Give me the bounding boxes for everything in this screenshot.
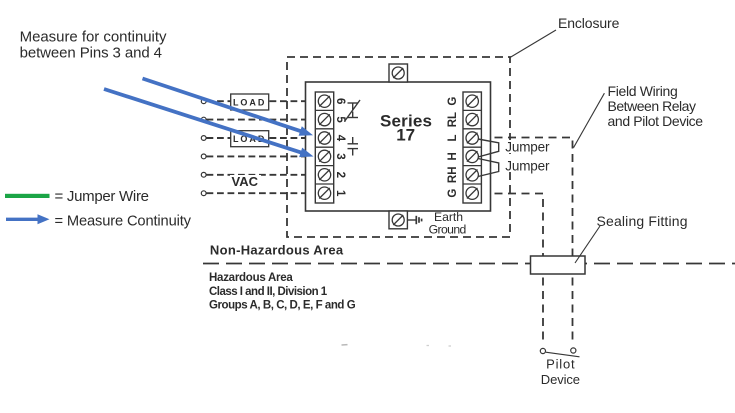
svg-text:Ground: Ground xyxy=(429,222,467,236)
contact K1 (NC, between pins 5 and 6) xyxy=(345,100,360,121)
pin number label 1 xyxy=(334,190,346,197)
svg-text:between Pins 3 and 4: between Pins 3 and 4 xyxy=(20,45,162,62)
svg-text:and Pilot Device: and Pilot Device xyxy=(608,113,704,129)
legend measure-continuity arrow xyxy=(6,214,50,224)
svg-text:Jumper: Jumper xyxy=(505,140,550,155)
jumper J1 (L to H) xyxy=(478,139,499,157)
svg-text:Non-Hazardous Area: Non-Hazardous Area xyxy=(210,243,344,258)
label: Pilot Device xyxy=(541,357,580,387)
legend label: = Measure Continuity xyxy=(55,214,192,230)
wire: pin 6 row xyxy=(207,100,319,102)
measure arrow A2 (to pin 3) xyxy=(104,89,314,157)
jumper J2 (H to RH) xyxy=(478,159,499,177)
svg-text:L: L xyxy=(447,134,459,141)
terminal label G (bottom) xyxy=(447,189,459,198)
svg-text:2: 2 xyxy=(334,172,346,178)
legend jumper wire swatch xyxy=(5,194,50,198)
pin number label 3 xyxy=(334,153,346,159)
svg-text:5: 5 xyxy=(334,116,346,123)
svg-text:Groups A, B, C, D, E, F and G: Groups A, B, C, D, E, F and G xyxy=(209,300,356,312)
svg-text:= Jumper Wire: = Jumper Wire xyxy=(55,188,150,205)
label: Series 17 xyxy=(380,112,432,145)
svg-text:Field Wiring: Field Wiring xyxy=(608,83,678,99)
svg-text:Device: Device xyxy=(541,372,580,387)
svg-text:RL: RL xyxy=(447,112,459,127)
enclosure xyxy=(287,57,510,237)
relay U1 body xyxy=(306,82,491,211)
label: Hazardous Area / Class / Groups xyxy=(209,272,356,312)
wire: pin 1 row xyxy=(207,192,319,194)
load box L2 xyxy=(231,131,269,147)
terminal label L xyxy=(447,134,459,141)
svg-text:4: 4 xyxy=(334,135,346,142)
label: Jumper (2) xyxy=(503,159,552,174)
svg-text:LOAD: LOAD xyxy=(233,98,267,108)
wire: from terminal G (bottom) to pilot device (left vertical) xyxy=(481,194,543,346)
svg-text:H: H xyxy=(447,152,459,160)
terminal label H xyxy=(447,152,459,160)
label: Jumper (1) xyxy=(503,140,550,155)
svg-text:17: 17 xyxy=(396,125,415,144)
terminal strip TB2 (right, G RL L H RH G) xyxy=(463,92,481,203)
pin number label 6 xyxy=(334,98,346,104)
svg-text:Sealing Fitting: Sealing Fitting xyxy=(597,213,688,229)
svg-text:6: 6 xyxy=(334,98,346,104)
svg-text:Enclosure: Enclosure xyxy=(558,15,620,31)
terminal label RL xyxy=(447,112,459,127)
svg-text:RH: RH xyxy=(447,166,459,183)
annotation: measure instruction xyxy=(20,28,167,61)
wire: pin 4 row xyxy=(207,137,319,139)
measure arrow A1 (to pin 4) xyxy=(143,79,314,136)
svg-text:G: G xyxy=(447,189,459,198)
sealing fitting xyxy=(531,256,586,274)
svg-text:= Measure Continuity: = Measure Continuity xyxy=(55,214,192,230)
pin number label 4 xyxy=(334,135,346,142)
label: VAC xyxy=(230,174,261,189)
svg-text:G: G xyxy=(447,97,459,106)
wire: pin 3 row xyxy=(207,155,319,157)
pilot device switch xyxy=(540,348,579,357)
label: Enclosure xyxy=(510,15,620,58)
label: Sealing Fitting xyxy=(575,213,688,263)
label: Non-Hazardous Area xyxy=(210,243,344,258)
svg-text:Jumper: Jumper xyxy=(505,159,550,174)
wire: pin 5 row xyxy=(207,119,319,121)
node: field terminal pin 2 xyxy=(201,172,206,177)
contact K2 (NO, between pins 3 and 4) xyxy=(348,137,359,156)
node: field terminal pin 1 xyxy=(201,191,206,196)
legend label: = Jumper Wire xyxy=(55,188,150,205)
svg-text:3: 3 xyxy=(334,153,346,159)
svg-text:VAC: VAC xyxy=(232,174,259,189)
hazardous area boundary line xyxy=(203,263,735,265)
label: Earth Ground xyxy=(429,210,467,236)
wire: field wiring from terminal L to pilot device (right vertical) xyxy=(481,138,573,346)
load box L1 xyxy=(231,94,269,110)
svg-text:Measure for continuity: Measure for continuity xyxy=(20,28,167,45)
ground symbol xyxy=(408,216,422,224)
bottom earth terminal xyxy=(389,211,407,229)
svg-text:Hazardous Area: Hazardous Area xyxy=(209,272,293,284)
node: field terminal pin 6 xyxy=(201,99,206,104)
terminal label RH xyxy=(447,166,459,183)
scan smudge marks xyxy=(342,345,452,346)
svg-text:1: 1 xyxy=(334,190,346,197)
node: field terminal pin 5 xyxy=(201,117,206,122)
pin number label 5 xyxy=(334,116,346,123)
terminal strip TB1 (left, pins 1-6) xyxy=(315,92,333,203)
node: field terminal pin 3 xyxy=(201,154,206,159)
top chassis terminal xyxy=(389,64,408,82)
terminal label G (top) xyxy=(447,97,459,106)
pin number label 2 xyxy=(334,172,346,178)
svg-text:Between Relay: Between Relay xyxy=(608,98,697,114)
label: Field Wiring Between Relay and Pilot Device xyxy=(574,83,704,148)
svg-text:Class I and II, Division 1: Class I and II, Division 1 xyxy=(209,286,328,298)
node: field terminal pin 4 xyxy=(201,136,206,141)
svg-text:Pilot: Pilot xyxy=(546,357,575,372)
wire: pin 2 row xyxy=(207,174,319,176)
